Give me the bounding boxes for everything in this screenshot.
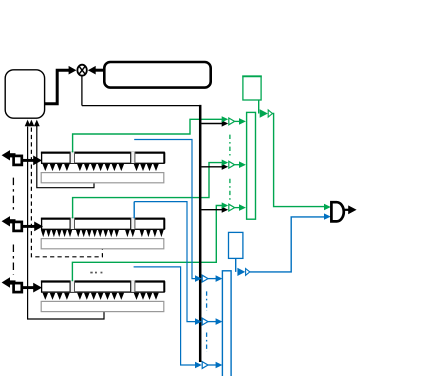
merge open arrowhead row 2 — [229, 161, 246, 168]
blue mux ellipsis 1 — [206, 291, 208, 311]
blue select box U4 — [229, 232, 243, 258]
row 3 synapse taps — [43, 293, 159, 300]
row 1 synapse taps — [43, 164, 159, 171]
row 1 array bar — [41, 152, 165, 163]
feedback line row1 (solid) — [34, 120, 94, 188]
feedback line row3 (solid) — [25, 120, 104, 319]
row 2 array bar — [41, 218, 165, 229]
ports ellipsis 1 — [12, 178, 14, 210]
gate output arrow — [344, 205, 357, 214]
input port P2 — [2, 216, 43, 231]
AND gate G1 — [331, 202, 343, 221]
green mux M1 — [247, 112, 256, 219]
wire U2 to mixer — [88, 66, 104, 75]
merge open arrowhead row 3 — [229, 204, 246, 211]
green wire arrowhead row 2 — [222, 160, 229, 166]
blue wire arrow into blue mux row 2 — [195, 318, 222, 325]
main bus wire from mixer — [82, 76, 200, 106]
green wire arrowhead row 1 — [222, 116, 229, 122]
controller box U1 — [5, 70, 44, 118]
wire U1 to mixer — [45, 66, 77, 104]
input port P1 — [2, 150, 42, 165]
blue wire row3 to blue mux — [134, 267, 196, 365]
row 3 array bar — [41, 281, 165, 292]
row 1 bar tap cell 1 — [70, 152, 74, 164]
row 1 bar tap cell 2 — [131, 152, 135, 164]
row 2 bar tap cell 2 — [131, 218, 135, 230]
blue wire arrow into blue mux row 1 — [195, 275, 222, 282]
row 3 bar tap cell 1 — [70, 281, 74, 293]
merge open arrowhead row 1 — [229, 118, 246, 125]
green wire row2 to mux — [73, 163, 223, 219]
feedback line row2 (dashed) — [29, 120, 103, 257]
blue wire row1 to blue mux — [134, 140, 196, 279]
blue mux ellipsis 2 — [206, 333, 208, 353]
row 2 output register — [41, 239, 164, 249]
oscillator box U2 — [104, 62, 210, 88]
input port P3 — [2, 277, 42, 292]
bus stub arrow to green mux row 2 — [201, 164, 228, 170]
blue wire arrow into blue mux row 3 — [195, 362, 222, 369]
row 1 output register — [41, 173, 164, 183]
green output wire U3 to gate — [259, 100, 331, 210]
main bus vertical — [199, 105, 202, 362]
bus stub arrow to green mux row 3 — [201, 207, 228, 213]
ports ellipsis 2 — [12, 245, 14, 275]
green wire row1 to mux — [73, 119, 223, 152]
blue output wire U4 to gate — [236, 213, 331, 276]
green mux ellipsis 1 — [229, 135, 231, 156]
green wire row3 to mux — [72, 206, 222, 282]
row 3 output register — [41, 301, 164, 311]
bus stub arrow to green mux row 1 — [201, 120, 228, 126]
green mux ellipsis 2 — [229, 179, 231, 200]
row 2 bar tap cell 1 — [70, 218, 74, 230]
green wire arrowhead row 3 — [222, 202, 229, 208]
row 3 bar tap cell 2 — [131, 281, 135, 293]
green select box U3 — [242, 76, 261, 100]
row 2 synapse taps — [41, 230, 164, 237]
blue mux M2 — [222, 271, 231, 376]
ellipsis dots between rows — [90, 272, 102, 274]
mixer X1 (circle-X) — [77, 65, 86, 76]
blue wire row2 to blue mux — [134, 202, 196, 322]
